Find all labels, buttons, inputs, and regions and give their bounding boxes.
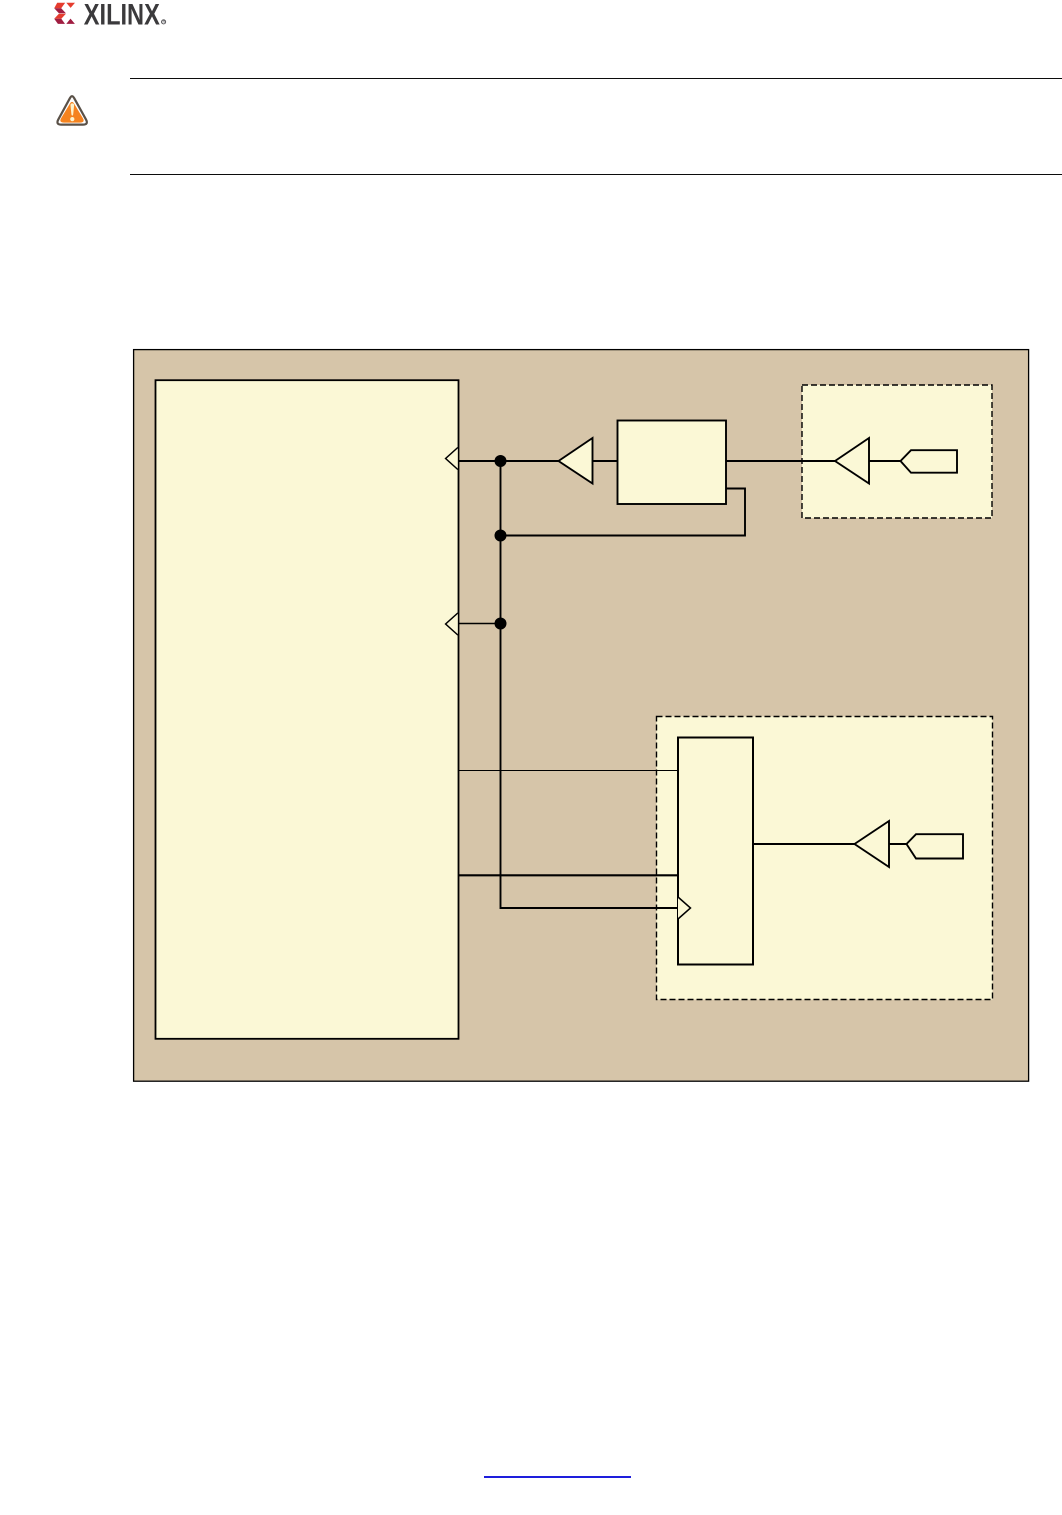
footer link underline bbox=[484, 1476, 631, 1477]
wire: pad1 to buffer2 bbox=[869, 460, 902, 462]
logo mark ribbon: bottom crimson band bbox=[54, 19, 65, 24]
caution icon bbox=[54, 92, 92, 127]
wire: buffer3 to pad2 bbox=[889, 843, 908, 845]
input chevron on left block (clock input, upper) bbox=[446, 448, 458, 470]
logo mark ribbon: top red band bbox=[54, 3, 65, 9]
logo mark ribbon: upper crimson band bbox=[54, 8, 66, 13]
wire: buffer1 output to left block bbox=[459, 460, 560, 462]
feedback wire from small box to vertical wire bbox=[501, 489, 746, 536]
input chevron on left block (clock input, lower) bbox=[446, 613, 458, 635]
logo mark: bottom-right crimson triangle bbox=[66, 19, 75, 24]
logo mark ribbon: lower red band bbox=[54, 14, 66, 19]
junction dot B bbox=[495, 530, 507, 542]
vertical clock distribution wire bbox=[501, 461, 690, 908]
left logic block bbox=[156, 380, 459, 1039]
wire: left block to flip-flop lower input bbox=[459, 874, 679, 876]
junction dot C bbox=[495, 618, 507, 630]
input buffer2 bbox=[835, 438, 869, 484]
top-right dashed IOB group bbox=[802, 385, 992, 518]
thin wire: left block to flip-flop D input bbox=[459, 770, 679, 772]
logo mark: top-right red triangle bbox=[66, 3, 75, 8]
wire: flip-flop Q to buffer3 bbox=[753, 843, 855, 845]
wire: small box to buffer1 bbox=[593, 460, 618, 462]
pad2 symbol bbox=[907, 834, 964, 858]
registered mark bbox=[162, 20, 166, 24]
header rule top bbox=[130, 78, 1062, 79]
output buffer3 bbox=[855, 821, 890, 867]
clock buffer1 bbox=[559, 438, 593, 484]
flip-flop clock chevron bbox=[678, 897, 691, 919]
output flip-flop block bbox=[678, 738, 753, 965]
header rule bottom bbox=[130, 174, 1062, 175]
wire: pad buffer2 to small box bbox=[726, 460, 836, 462]
Xilinx logo bbox=[53, 1, 173, 27]
stub wire to left block lower input bbox=[459, 623, 501, 625]
pad1 symbol bbox=[901, 450, 958, 473]
bottom-right dashed IOB group bbox=[657, 717, 993, 1000]
DCM small box bbox=[618, 421, 727, 505]
tan background panel bbox=[134, 350, 1029, 1082]
junction dot A bbox=[495, 455, 507, 467]
